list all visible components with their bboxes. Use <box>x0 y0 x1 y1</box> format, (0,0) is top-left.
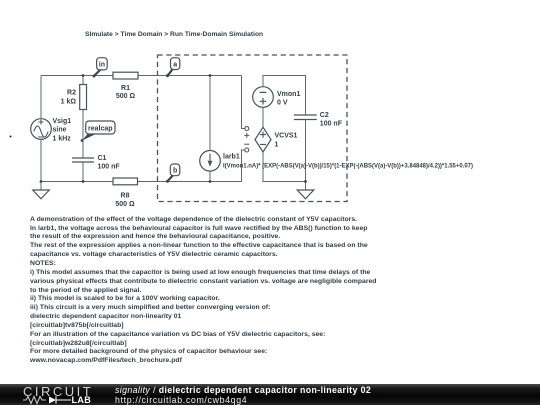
svg-text:500 Ω: 500 Ω <box>116 93 136 100</box>
footer bar <box>0 384 540 405</box>
source Vmon1 <box>253 87 274 108</box>
description text <box>30 216 376 366</box>
junction larb1 top rail <box>209 74 212 77</box>
footer url <box>115 395 247 405</box>
svg-text:Vmon1: Vmon1 <box>277 91 300 98</box>
wire Vmon1 top to C2 top <box>263 76 306 116</box>
svg-text:I(Vmon1.nA)* (EXP(-ABS(V(a)-V(: I(Vmon1.nA)* (EXP(-ABS(V(a)-V(b))/15)*(1… <box>223 162 473 169</box>
wire VCVS1 bottom to bottom rail right <box>263 152 306 182</box>
wire Vsig1 top <box>40 76 42 119</box>
junction R2 top rail <box>82 74 85 77</box>
svg-text:b: b <box>173 168 177 175</box>
wire bottom rail left <box>41 181 242 183</box>
node flag a <box>166 58 180 78</box>
wire Vsig1 bottom <box>40 139 42 181</box>
svg-text:realcap: realcap <box>88 126 113 133</box>
svg-text:1 kHz: 1 kHz <box>53 135 72 142</box>
wire VCVS - control from bottom rail <box>242 150 245 182</box>
svg-text:R8: R8 <box>121 192 130 199</box>
capacitor C2 <box>294 115 317 120</box>
wire larb1 branch <box>209 76 211 182</box>
ground stub right <box>305 182 307 191</box>
menu breadcrumb <box>85 31 263 38</box>
wire VCVS + control from top rail <box>242 76 245 129</box>
svg-text:1 kΩ: 1 kΩ <box>61 98 77 105</box>
ground stub left <box>40 182 42 191</box>
ground left <box>33 190 50 199</box>
node flag b <box>166 164 180 183</box>
junction Vsig1 bottom / ground <box>40 180 43 183</box>
svg-text:Vsig1: Vsig1 <box>53 118 72 125</box>
capacitor C1 <box>72 158 94 162</box>
svg-text:sine: sine <box>53 127 67 134</box>
component labels <box>53 85 474 208</box>
dashed behavioural-model box <box>158 55 348 202</box>
svg-text:R1: R1 <box>121 85 130 92</box>
CircuitLab logo zigzag + diode <box>22 395 74 405</box>
wire C2 bottom <box>305 120 307 182</box>
wire top rail <box>41 75 242 77</box>
source Vsig1 <box>31 119 52 140</box>
resistor R8 <box>113 178 138 185</box>
junction larb1 bottom rail <box>209 180 212 183</box>
ground right <box>297 190 314 199</box>
svg-text:in: in <box>99 62 105 69</box>
wire R2 branch / C1 branch <box>82 76 84 182</box>
VCVS control - terminal <box>244 144 249 152</box>
current source larb1 <box>200 151 221 172</box>
svg-text:R2: R2 <box>67 90 76 97</box>
svg-text:C2: C2 <box>320 112 329 119</box>
node flag in <box>93 58 108 78</box>
svg-text:VCVS1: VCVS1 <box>275 133 298 140</box>
VCVS control + terminal <box>244 127 249 138</box>
svg-text:a: a <box>173 62 177 69</box>
resistor R1 <box>113 72 138 79</box>
node flag realcap <box>81 121 115 142</box>
footer title <box>115 385 371 395</box>
svg-text:C1: C1 <box>98 155 107 162</box>
junction C2 bottom / ground <box>304 180 307 183</box>
svg-text:100 nF: 100 nF <box>98 163 121 170</box>
wire Vmon1 bottom to VCVS1 top <box>262 108 264 128</box>
svg-text:500 Ω: 500 Ω <box>115 201 135 208</box>
junction C1 bottom rail <box>82 180 85 183</box>
svg-text:0 V: 0 V <box>277 99 288 106</box>
CircuitLab logo LAB <box>72 395 92 405</box>
stray dot artifact <box>10 136 12 138</box>
svg-text:larb1: larb1 <box>223 154 240 161</box>
resistor R2 <box>80 85 87 110</box>
CircuitLab logo text <box>23 384 93 399</box>
svg-text:100 nF: 100 nF <box>320 120 343 127</box>
svg-text:1: 1 <box>275 141 279 148</box>
VCVS1 diamond <box>255 127 271 152</box>
